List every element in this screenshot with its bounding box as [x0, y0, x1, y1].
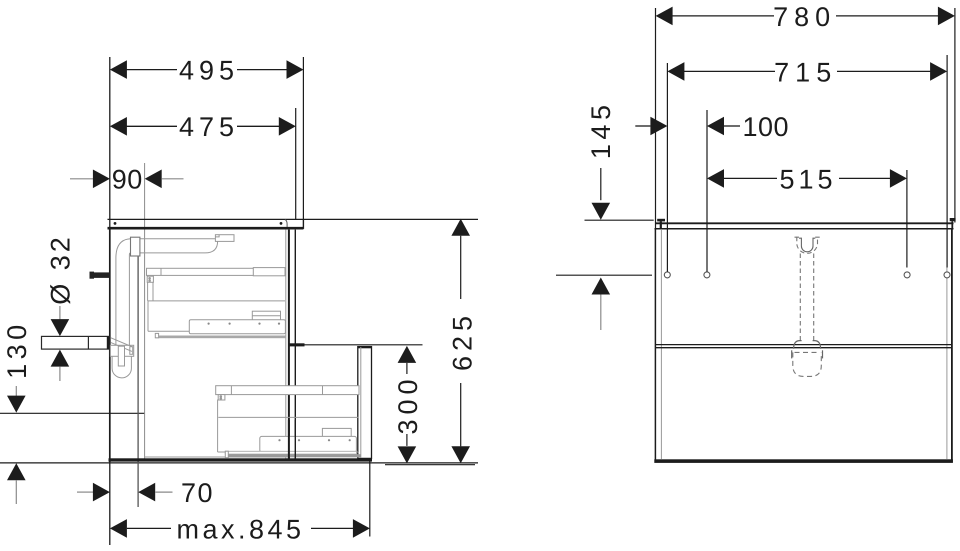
solid trap clips [792, 341, 823, 359]
svg-text:Ø 32: Ø 32 [46, 234, 76, 305]
780 left extension / left wall line [655, 8, 657, 229]
hole3 extension line [906, 170, 908, 268]
svg-text:130: 130 [2, 320, 32, 379]
mounting hole 4 [944, 272, 950, 278]
cabinet bottom thick bar [109, 458, 373, 461]
70mm reference line [137, 256, 139, 507]
svg-text:515: 515 [779, 164, 836, 194]
right side wall [951, 229, 953, 463]
upper drawer bottom bar with screws [189, 320, 285, 334]
siphon: horizontal pipe and elbow [116, 239, 218, 357]
basin top line [656, 222, 954, 224]
siphon: wall bracket diagonals [111, 338, 133, 366]
left side wall [654, 229, 656, 463]
basin screw dot left [114, 222, 117, 225]
basin screw dot right [280, 222, 283, 225]
cabinet bottom inner line [145, 456, 286, 458]
basin bottom thick line [108, 227, 304, 230]
svg-text:100: 100 [743, 112, 790, 142]
svg-text:300: 300 [393, 374, 423, 434]
hole4 extension line [946, 55, 948, 268]
siphon: Ø32 outlet pipe to wall [42, 336, 110, 349]
svg-text:495: 495 [179, 56, 239, 86]
svg-text:715: 715 [774, 57, 837, 87]
mounting hole 3 [904, 272, 910, 278]
black tick between drawer fronts [288, 343, 305, 346]
basin front face [302, 219, 304, 229]
dashed drain collar [795, 237, 820, 254]
floor line B [0, 462, 478, 464]
svg-text:780: 780 [773, 2, 836, 32]
right hanging bracket [950, 218, 956, 229]
siphon: drain fitting under basin [215, 235, 234, 242]
dimension 625 [448, 219, 478, 464]
svg-text:max.845: max.845 [176, 514, 304, 544]
dimension max. 845 [110, 514, 370, 544]
max845 right extension [369, 458, 371, 536]
dimension 70 [77, 478, 214, 508]
lower drawer back bracket [218, 395, 225, 400]
carcass front edge (gray) [285, 230, 287, 459]
dimension 300 [296, 345, 475, 465]
wall drain stub [90, 272, 110, 278]
dimension 495 [110, 56, 304, 220]
dimension 130 [2, 320, 32, 504]
svg-text:145: 145 [586, 101, 616, 160]
dimension 145 [556, 101, 654, 330]
left inner wall line [660, 230, 662, 459]
hole2 extension line [706, 110, 708, 272]
right inner wall line [946, 230, 948, 459]
drawer front inner face (dark thick) [288, 230, 290, 459]
drawer front outer face (475 line) [294, 230, 296, 459]
780 right extension [954, 8, 956, 223]
offset lower front panel [358, 347, 372, 459]
svg-text:625: 625 [448, 311, 478, 371]
mounting hole 1 [664, 272, 670, 278]
basin inner front curve [285, 220, 287, 227]
lower drawer slide rail [216, 386, 359, 395]
siphon: bottle trap [110, 345, 133, 378]
lower drawer bottom band [225, 451, 361, 458]
basin top line + 625 top tail [108, 218, 479, 220]
dashed drain pipe [800, 254, 813, 342]
mounting hole 2 [704, 272, 710, 278]
solid drain inner cup [799, 238, 815, 252]
dimension Ø32 [46, 234, 76, 381]
svg-text:70: 70 [181, 478, 214, 508]
horizontal line A (130-dim upper reference) [0, 412, 145, 414]
hole1 extension line [666, 63, 668, 272]
upper drawer bottom band [155, 333, 285, 338]
svg-text:475: 475 [179, 112, 239, 142]
dimension 475 [110, 108, 296, 219]
90mm reference line (gray) [144, 163, 146, 459]
lower drawer box panel [218, 400, 359, 453]
dimension 100 [635, 112, 789, 142]
basin bottom line [655, 228, 954, 230]
upper drawer back bracket [147, 276, 153, 301]
svg-text:90: 90 [112, 165, 143, 195]
drawer front lines overlay [289, 420, 295, 459]
dimension 90 [70, 165, 184, 195]
dimension 780 [656, 2, 955, 32]
wall line / left extension x=109.8 [109, 57, 111, 545]
wall line thicker section [109, 229, 111, 462]
siphon: union nut [131, 237, 140, 256]
dimension 515 [707, 164, 907, 194]
upper drawer box panel [148, 301, 285, 331]
left hanging bracket [657, 219, 665, 229]
dimension 715 [667, 57, 947, 87]
upper drawer slide rail [147, 268, 286, 276]
dashed trap cup [793, 352, 822, 376]
drawer split lines [655, 344, 952, 346]
lower drawer bottom bar with screws [260, 436, 357, 452]
cabinet bottom bar [654, 459, 953, 463]
